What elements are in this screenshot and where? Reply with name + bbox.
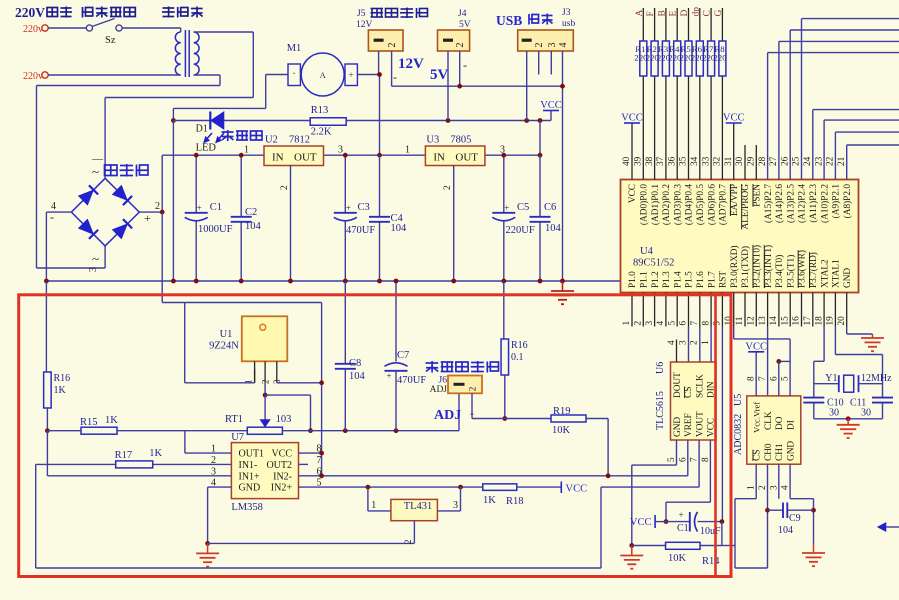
svg-text:(AD5)P0.5: (AD5)P0.5 bbox=[695, 184, 706, 225]
svg-text:J4: J4 bbox=[458, 9, 467, 19]
svg-text:40: 40 bbox=[622, 156, 632, 166]
svg-text:P3.2(INT0): P3.2(INT0) bbox=[752, 245, 763, 288]
svg-text:(AD0)P0.0: (AD0)P0.0 bbox=[639, 184, 650, 225]
svg-text:4: 4 bbox=[781, 485, 791, 490]
svg-text:5: 5 bbox=[667, 457, 677, 462]
svg-text:2: 2 bbox=[758, 485, 768, 490]
svg-text:1: 1 bbox=[211, 444, 216, 455]
svg-text:2: 2 bbox=[155, 201, 160, 212]
svg-text:+: + bbox=[504, 203, 509, 213]
svg-text:P1.6: P1.6 bbox=[696, 271, 706, 288]
svg-text:6: 6 bbox=[769, 376, 779, 381]
svg-text:ALE/PROG: ALE/PROG bbox=[741, 184, 751, 230]
svg-text:8: 8 bbox=[701, 321, 711, 326]
svg-text:dp: dp bbox=[691, 7, 701, 17]
svg-text:12: 12 bbox=[747, 316, 757, 326]
svg-text:F: F bbox=[646, 11, 656, 16]
svg-text:VCC: VCC bbox=[271, 449, 292, 460]
svg-text:30: 30 bbox=[861, 408, 871, 419]
svg-text:1000UF: 1000UF bbox=[198, 224, 233, 235]
svg-text:2: 2 bbox=[690, 340, 700, 345]
svg-text:R19: R19 bbox=[553, 406, 571, 417]
svg-text:104: 104 bbox=[545, 223, 562, 234]
svg-text:+: + bbox=[348, 70, 353, 80]
svg-text:C2: C2 bbox=[245, 207, 257, 218]
svg-text:31: 31 bbox=[724, 156, 734, 166]
svg-text:XTAL1: XTAL1 bbox=[832, 259, 842, 288]
svg-text:P3.7(RD): P3.7(RD) bbox=[808, 252, 819, 288]
svg-text:1: 1 bbox=[371, 500, 376, 511]
svg-text:TL431: TL431 bbox=[404, 501, 433, 512]
svg-text:5V: 5V bbox=[430, 67, 449, 83]
svg-text:(A12)P2.4: (A12)P2.4 bbox=[797, 184, 808, 223]
svg-text:VCC: VCC bbox=[566, 484, 588, 495]
svg-text:P1.0: P1.0 bbox=[628, 271, 638, 288]
svg-text:220v: 220v bbox=[23, 71, 43, 82]
svg-text:+: + bbox=[678, 510, 683, 520]
svg-text:ADJ: ADJ bbox=[430, 385, 448, 395]
svg-text:2: 2 bbox=[534, 43, 545, 48]
svg-text:SCLK: SCLK bbox=[695, 374, 705, 398]
svg-text:IN: IN bbox=[433, 152, 445, 164]
svg-text:8: 8 bbox=[701, 457, 711, 462]
svg-text:(A14)P2.6: (A14)P2.6 bbox=[774, 184, 785, 223]
svg-text:103: 103 bbox=[276, 414, 292, 425]
svg-text:P1.3: P1.3 bbox=[662, 271, 672, 288]
svg-text:104: 104 bbox=[391, 223, 408, 234]
svg-text:36: 36 bbox=[667, 156, 677, 166]
svg-text:2: 2 bbox=[634, 321, 644, 326]
svg-text:U4: U4 bbox=[640, 246, 654, 257]
svg-text:J6: J6 bbox=[439, 376, 448, 386]
svg-text:29: 29 bbox=[747, 156, 757, 166]
svg-text:39: 39 bbox=[634, 156, 644, 166]
svg-text:USB: USB bbox=[496, 13, 522, 28]
svg-text:~: ~ bbox=[92, 251, 99, 266]
svg-text:VCC: VCC bbox=[621, 113, 643, 124]
svg-text:9Z24N: 9Z24N bbox=[209, 341, 239, 352]
svg-text:+: + bbox=[386, 371, 391, 381]
svg-text:P3.1(TXD): P3.1(TXD) bbox=[740, 246, 751, 288]
svg-text:32: 32 bbox=[713, 156, 723, 166]
svg-text:B: B bbox=[657, 10, 667, 16]
svg-text:·: · bbox=[292, 69, 295, 80]
svg-text:12V: 12V bbox=[356, 20, 373, 30]
svg-text:P3.3(INT1): P3.3(INT1) bbox=[763, 245, 774, 288]
svg-text:35: 35 bbox=[679, 156, 689, 166]
svg-text:(A15)P2.7: (A15)P2.7 bbox=[763, 184, 774, 223]
svg-text:GND: GND bbox=[673, 417, 683, 437]
svg-text:12V: 12V bbox=[398, 56, 424, 72]
svg-text:P1.1: P1.1 bbox=[640, 271, 650, 288]
svg-text:CS: CS bbox=[684, 387, 694, 398]
svg-text:C6: C6 bbox=[544, 202, 556, 213]
svg-text:2: 2 bbox=[469, 386, 479, 391]
svg-text:7: 7 bbox=[690, 321, 700, 326]
svg-text:10K: 10K bbox=[668, 553, 687, 564]
svg-text:OUT1: OUT1 bbox=[239, 449, 265, 460]
svg-text:20: 20 bbox=[837, 316, 847, 326]
svg-text:CLK: CLK bbox=[764, 411, 774, 430]
svg-text:GND: GND bbox=[239, 483, 261, 494]
svg-text:PSEN: PSEN bbox=[753, 184, 763, 207]
svg-text:VCC: VCC bbox=[745, 341, 767, 352]
svg-text:2.2K: 2.2K bbox=[311, 127, 332, 138]
svg-text:5: 5 bbox=[667, 321, 677, 326]
svg-text:38: 38 bbox=[645, 156, 655, 166]
svg-text:2: 2 bbox=[280, 185, 290, 190]
svg-text:CH1: CH1 bbox=[775, 443, 785, 461]
svg-text:Sz: Sz bbox=[105, 35, 116, 46]
svg-text:7: 7 bbox=[317, 455, 322, 466]
svg-text:C8: C8 bbox=[349, 358, 361, 369]
svg-text:C5: C5 bbox=[517, 202, 529, 213]
svg-text:E: E bbox=[669, 11, 679, 17]
svg-text:220: 220 bbox=[713, 53, 727, 63]
svg-text:(AD6)P0.6: (AD6)P0.6 bbox=[706, 184, 717, 225]
svg-text:5: 5 bbox=[781, 376, 791, 381]
svg-text:A: A bbox=[320, 70, 327, 80]
svg-text:A: A bbox=[635, 10, 645, 17]
svg-text:3: 3 bbox=[338, 145, 343, 156]
svg-text:23: 23 bbox=[814, 156, 824, 166]
svg-text:D1: D1 bbox=[196, 124, 208, 135]
svg-text:P3.5(T1): P3.5(T1) bbox=[785, 255, 796, 288]
svg-text:15: 15 bbox=[780, 316, 790, 326]
svg-text:R17: R17 bbox=[115, 450, 133, 461]
svg-text:Vcc.Vref: Vcc.Vref bbox=[752, 402, 762, 433]
svg-text:LED: LED bbox=[196, 143, 217, 154]
svg-text:R14: R14 bbox=[702, 556, 720, 567]
svg-text:VOUT: VOUT bbox=[695, 411, 705, 437]
svg-text:GND: GND bbox=[786, 441, 796, 461]
svg-text:C3: C3 bbox=[358, 202, 370, 213]
svg-text:19: 19 bbox=[826, 316, 836, 326]
svg-text:OUT: OUT bbox=[294, 152, 317, 164]
svg-text:13: 13 bbox=[758, 316, 768, 326]
svg-text:IN: IN bbox=[272, 152, 284, 164]
svg-text:G: G bbox=[714, 10, 724, 17]
svg-text:3: 3 bbox=[547, 43, 558, 48]
svg-text:(AD3)P0.3: (AD3)P0.3 bbox=[672, 184, 683, 225]
svg-text:30: 30 bbox=[829, 408, 839, 419]
svg-text:104: 104 bbox=[245, 221, 262, 232]
svg-text:LM358: LM358 bbox=[231, 502, 263, 513]
svg-text:1: 1 bbox=[244, 145, 249, 156]
svg-text:220v: 220v bbox=[23, 24, 43, 35]
svg-text:R13: R13 bbox=[311, 105, 329, 116]
svg-text:2: 2 bbox=[455, 43, 466, 48]
svg-text:1K: 1K bbox=[149, 448, 162, 459]
svg-text:1K: 1K bbox=[105, 415, 118, 426]
svg-text:U3: U3 bbox=[426, 135, 439, 146]
svg-text:4: 4 bbox=[558, 43, 569, 48]
svg-text:M1: M1 bbox=[287, 43, 302, 54]
svg-text:DOUT: DOUT bbox=[673, 372, 683, 398]
svg-text:CH0: CH0 bbox=[764, 443, 774, 461]
svg-text:17: 17 bbox=[803, 316, 813, 326]
svg-text:2: 2 bbox=[403, 540, 413, 545]
svg-text:CS: CS bbox=[753, 450, 763, 461]
svg-text:VREF: VREF bbox=[684, 413, 694, 437]
svg-text:3: 3 bbox=[678, 340, 688, 345]
svg-text:6: 6 bbox=[678, 457, 688, 462]
svg-text:89C51/52: 89C51/52 bbox=[633, 258, 674, 269]
svg-text:6: 6 bbox=[679, 321, 689, 326]
svg-text:C7: C7 bbox=[397, 350, 409, 361]
svg-text:C9: C9 bbox=[789, 513, 801, 524]
svg-text:~: ~ bbox=[92, 164, 99, 179]
svg-text:U6: U6 bbox=[655, 362, 666, 374]
svg-text:D: D bbox=[680, 10, 690, 17]
svg-text:(A13)P2.5: (A13)P2.5 bbox=[785, 184, 796, 223]
svg-text:1: 1 bbox=[747, 485, 757, 490]
svg-text:25: 25 bbox=[792, 156, 802, 166]
svg-text:U7: U7 bbox=[231, 432, 244, 443]
svg-text:7: 7 bbox=[690, 457, 700, 462]
svg-text:16: 16 bbox=[792, 316, 802, 326]
svg-text:+: + bbox=[346, 203, 351, 213]
svg-text:1K: 1K bbox=[483, 495, 496, 506]
svg-text:7812: 7812 bbox=[289, 135, 310, 146]
svg-text:P1.5: P1.5 bbox=[685, 271, 695, 288]
svg-text:(A9)P2.1: (A9)P2.1 bbox=[831, 184, 842, 219]
svg-text:VCC: VCC bbox=[628, 184, 638, 203]
svg-text:ADJ: ADJ bbox=[434, 408, 461, 423]
svg-text:R16: R16 bbox=[54, 373, 71, 384]
svg-text:IN1-: IN1- bbox=[239, 460, 258, 471]
svg-text:R16: R16 bbox=[511, 340, 528, 351]
svg-text:7805: 7805 bbox=[450, 135, 471, 146]
svg-text:(A8)P2.0: (A8)P2.0 bbox=[842, 184, 853, 219]
svg-text:GND: GND bbox=[843, 268, 853, 288]
svg-text:J5: J5 bbox=[357, 9, 366, 19]
svg-text:1: 1 bbox=[622, 321, 632, 326]
svg-text:OUT2: OUT2 bbox=[266, 460, 292, 471]
svg-text:104: 104 bbox=[349, 371, 366, 382]
svg-text:3: 3 bbox=[453, 500, 458, 511]
svg-text:24: 24 bbox=[803, 156, 813, 166]
svg-text:U2: U2 bbox=[265, 135, 278, 146]
svg-text:EA/VPP: EA/VPP bbox=[730, 184, 740, 216]
svg-text:104: 104 bbox=[778, 525, 793, 536]
svg-text:4: 4 bbox=[667, 340, 677, 345]
svg-text:0.1: 0.1 bbox=[511, 352, 524, 363]
svg-text:1: 1 bbox=[405, 145, 410, 156]
svg-text:P1.4: P1.4 bbox=[673, 271, 683, 288]
svg-text:470UF: 470UF bbox=[397, 375, 426, 386]
svg-text:(AD1)P0.1: (AD1)P0.1 bbox=[650, 184, 661, 225]
svg-text:5V: 5V bbox=[459, 20, 471, 30]
svg-text:3: 3 bbox=[769, 485, 779, 490]
svg-text:37: 37 bbox=[656, 156, 666, 166]
svg-text:9: 9 bbox=[713, 321, 723, 326]
svg-text:26: 26 bbox=[780, 156, 790, 166]
svg-text:U1: U1 bbox=[220, 329, 233, 340]
svg-text:220UF: 220UF bbox=[506, 225, 535, 236]
svg-text:-: - bbox=[463, 58, 467, 72]
svg-text:470UF: 470UF bbox=[346, 225, 375, 236]
svg-text:33: 33 bbox=[701, 156, 711, 166]
svg-text:18: 18 bbox=[814, 316, 824, 326]
svg-text:+: + bbox=[144, 211, 151, 225]
svg-text:Y1: Y1 bbox=[825, 373, 837, 384]
svg-text:P3.4(T0): P3.4(T0) bbox=[774, 255, 785, 288]
svg-text:P3.6(WR): P3.6(WR) bbox=[797, 250, 808, 288]
svg-text:22: 22 bbox=[826, 156, 836, 166]
svg-text:P1.7: P1.7 bbox=[707, 271, 717, 288]
svg-text:ADC0832: ADC0832 bbox=[733, 414, 744, 455]
svg-text:-: - bbox=[393, 70, 397, 84]
svg-text:2: 2 bbox=[443, 185, 453, 190]
svg-text:VCC: VCC bbox=[723, 113, 745, 124]
svg-text:P3.0(RXD): P3.0(RXD) bbox=[729, 245, 740, 288]
svg-text:(AD2)P0.2: (AD2)P0.2 bbox=[661, 184, 672, 225]
svg-text:27: 27 bbox=[769, 156, 779, 166]
svg-text:DI: DI bbox=[786, 420, 796, 430]
svg-text:VCC: VCC bbox=[630, 517, 652, 528]
svg-text:IN1+: IN1+ bbox=[239, 471, 261, 482]
svg-text:1K: 1K bbox=[54, 385, 67, 396]
svg-text:XTAL2: XTAL2 bbox=[820, 259, 830, 288]
svg-text:U5: U5 bbox=[733, 394, 744, 406]
svg-text:12MHz: 12MHz bbox=[861, 373, 892, 384]
svg-text:11: 11 bbox=[735, 316, 745, 325]
svg-text:3: 3 bbox=[88, 267, 99, 272]
svg-text:OUT: OUT bbox=[455, 152, 478, 164]
svg-text:DO: DO bbox=[775, 416, 785, 430]
svg-text:usb: usb bbox=[562, 19, 575, 29]
svg-text:28: 28 bbox=[758, 156, 768, 166]
svg-text:(A11)P2.3: (A11)P2.3 bbox=[808, 184, 819, 223]
svg-text:34: 34 bbox=[690, 156, 700, 166]
svg-text:TLC5615: TLC5615 bbox=[655, 391, 666, 430]
svg-text:(A10)P2.2: (A10)P2.2 bbox=[819, 184, 830, 223]
svg-text:C1: C1 bbox=[210, 202, 222, 213]
svg-text:8: 8 bbox=[747, 376, 757, 381]
svg-text:7: 7 bbox=[758, 376, 768, 381]
svg-text:10uF: 10uF bbox=[700, 526, 721, 537]
svg-text:IN2+: IN2+ bbox=[271, 483, 293, 494]
svg-text:R15: R15 bbox=[80, 417, 98, 428]
svg-text:(AD4)P0.4: (AD4)P0.4 bbox=[684, 184, 695, 225]
svg-text:C1: C1 bbox=[677, 523, 689, 534]
svg-text:3: 3 bbox=[645, 321, 655, 326]
svg-text:220V: 220V bbox=[15, 5, 45, 20]
svg-text:RT1: RT1 bbox=[225, 414, 243, 425]
svg-text:1: 1 bbox=[701, 340, 711, 345]
svg-text:4: 4 bbox=[656, 321, 666, 326]
svg-text:J3: J3 bbox=[562, 8, 571, 18]
svg-text:14: 14 bbox=[769, 316, 779, 326]
svg-text:10K: 10K bbox=[552, 425, 571, 436]
svg-text:C: C bbox=[703, 10, 713, 16]
svg-text:P1.2: P1.2 bbox=[651, 271, 661, 288]
svg-text:(AD7)P0.7: (AD7)P0.7 bbox=[718, 184, 729, 225]
svg-text:R18: R18 bbox=[506, 496, 524, 507]
svg-text:VCC: VCC bbox=[540, 100, 562, 111]
svg-text:+: + bbox=[197, 203, 202, 213]
svg-text:RST: RST bbox=[719, 271, 729, 288]
svg-text:30: 30 bbox=[735, 156, 745, 166]
svg-text:IN2-: IN2- bbox=[273, 471, 292, 482]
svg-text:2: 2 bbox=[387, 43, 398, 48]
svg-text:21: 21 bbox=[837, 156, 847, 166]
